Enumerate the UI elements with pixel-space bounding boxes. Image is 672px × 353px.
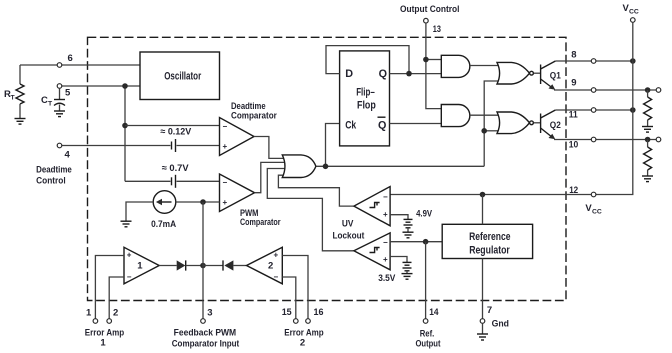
junction (NOR2 feedback) <box>481 128 487 134</box>
svg-text:Reference: Reference <box>469 231 510 243</box>
wire pin11 collector Q2 <box>555 109 632 111</box>
wire pin4 deadtime control line <box>62 145 171 147</box>
wire feedback vertical pin3 <box>202 202 204 319</box>
svg-text:10: 10 <box>569 140 579 151</box>
svg-text:−: − <box>274 273 279 282</box>
battery 3.5V <box>403 262 412 270</box>
wire AND1 to NOR1 <box>470 65 500 67</box>
svg-text:≈ 0.7V: ≈ 0.7V <box>162 163 190 174</box>
wire pin6 line <box>20 64 140 66</box>
svg-text:Flip–: Flip– <box>356 87 375 99</box>
junction (feedback node) <box>200 263 206 269</box>
wire Ck connection <box>326 124 340 167</box>
svg-text:1: 1 <box>137 261 143 272</box>
junction (feedback/PWM plus) <box>200 199 206 205</box>
wire pin 14 <box>425 242 427 319</box>
svg-text:+: + <box>223 198 228 207</box>
wire deadtime minus input <box>125 125 220 127</box>
wire Q output <box>390 73 442 75</box>
dashed IC boundary box <box>88 37 567 300</box>
node pin 7 Gnd <box>480 319 485 324</box>
svg-text:13: 13 <box>433 24 441 35</box>
svg-text:9: 9 <box>571 78 576 89</box>
svg-text:15: 15 <box>282 307 293 318</box>
wire Qbar output <box>390 123 442 125</box>
wire Vcc rail <box>596 22 633 194</box>
junction (pin10/R2) <box>645 137 651 143</box>
junction (OR out / Ck) <box>323 164 329 170</box>
junction (rail/ref reg) <box>480 192 486 198</box>
node pin 4 terminal <box>57 143 62 148</box>
svg-text:8: 8 <box>571 50 576 61</box>
wire pin13 to AND gates <box>426 23 441 109</box>
svg-text:≈ 0.12V: ≈ 0.12V <box>160 127 192 138</box>
svg-text:Ck: Ck <box>345 119 357 131</box>
resistor R1 (pin9 pulldown) <box>644 90 652 126</box>
svg-text:Q2: Q2 <box>550 120 561 131</box>
wire UV1 plus input <box>390 215 408 219</box>
svg-text:+: + <box>223 142 228 151</box>
node pin9 external terminal <box>656 88 661 93</box>
node pin 1 <box>93 319 98 324</box>
ground (R2) <box>642 176 653 182</box>
nor-gate N1 <box>497 62 530 84</box>
svg-text:4: 4 <box>65 150 71 161</box>
svg-text:T: T <box>48 101 53 108</box>
svg-text:4.9V: 4.9V <box>416 209 433 220</box>
svg-text:2: 2 <box>113 307 118 318</box>
diode D1 <box>159 265 177 267</box>
svg-text:5: 5 <box>65 87 71 98</box>
svg-text:Flop: Flop <box>357 99 376 111</box>
ground (RT) <box>15 119 26 125</box>
transistor Q2 <box>534 110 561 139</box>
flip-flop U-FF <box>340 51 390 146</box>
node pin 5 terminal <box>57 84 62 89</box>
junction (pin9/R1) <box>645 87 651 93</box>
junction (pin5/ramp) <box>122 83 128 89</box>
wire EA1 plus to pin1 <box>95 256 124 319</box>
battery 0.12V offset <box>172 139 176 152</box>
current source 0.7mA <box>151 191 176 230</box>
wire current source to PWM plus input <box>176 201 220 203</box>
svg-text:Oscillator: Oscillator <box>164 71 202 83</box>
svg-text:Deadtime: Deadtime <box>36 165 72 176</box>
ground (pin7) <box>477 334 488 340</box>
svg-text:Control: Control <box>36 176 66 187</box>
svg-text:−: − <box>223 122 228 131</box>
wire AND2 to NOR2 <box>470 114 500 116</box>
wire UV1 output to OR <box>278 175 354 206</box>
svg-text:Regulator: Regulator <box>469 244 510 256</box>
svg-text:+: + <box>274 251 279 260</box>
junction (ramp/deadtime minus) <box>122 123 128 129</box>
wire deadtime comp output <box>254 137 289 159</box>
svg-text:2: 2 <box>300 338 305 349</box>
svg-text:−: − <box>383 192 388 201</box>
node pin 2 <box>107 319 112 324</box>
wire ref reg top to rail <box>482 195 484 225</box>
ground (3.5V) <box>402 274 413 280</box>
and-gate A2 <box>441 105 470 127</box>
node pin 3 <box>201 319 206 324</box>
svg-text:1: 1 <box>86 307 92 318</box>
node pin 6 terminal <box>57 63 62 68</box>
ground (0.7mA source) <box>121 221 132 227</box>
svg-text:Output Control: Output Control <box>400 4 460 15</box>
oscillator U-OSC <box>140 52 220 100</box>
node pin 14 Ref Output <box>423 319 428 324</box>
svg-text:CC: CC <box>592 209 602 216</box>
svg-text:14: 14 <box>429 307 439 318</box>
comparator PWM <box>220 174 255 212</box>
wire pin10 emitter Q2 <box>554 139 656 141</box>
svg-text:1: 1 <box>100 338 106 349</box>
comparator UV lockout 1 <box>354 187 390 226</box>
wire UV2 plus input <box>390 257 407 263</box>
wire ref reg bottom to pin 7 <box>482 259 484 319</box>
error amp 1 <box>124 247 159 283</box>
wire EA2 plus to pin16 <box>282 256 308 319</box>
diode D2 <box>203 265 223 267</box>
node pin 16 <box>306 319 311 324</box>
nor-gate N2 <box>497 112 530 134</box>
junction (pin8/Vcc rail) <box>630 58 636 64</box>
wire EA1 minus to pin2 <box>109 277 124 319</box>
error amp 2 <box>247 247 283 283</box>
svg-text:−: − <box>223 178 228 187</box>
wire UV2 output to OR <box>267 169 354 251</box>
junction (pin11/Vcc rail) <box>630 107 636 113</box>
svg-text:7: 7 <box>487 305 492 316</box>
svg-text:Output: Output <box>416 339 442 350</box>
battery 0.7V offset <box>172 175 176 188</box>
svg-text:6: 6 <box>68 53 73 64</box>
ground (R1) <box>642 127 653 133</box>
junction (pin13/AND1) <box>423 57 429 63</box>
junction (UV2/pin14) <box>423 239 429 245</box>
node pin10 external terminal <box>656 137 661 142</box>
svg-text:11: 11 <box>569 110 579 121</box>
comparator UV lockout 2 <box>354 233 390 270</box>
svg-text:Gnd: Gnd <box>492 318 510 329</box>
svg-text:C: C <box>41 95 48 106</box>
svg-text:−: − <box>383 238 388 247</box>
svg-text:Comparator: Comparator <box>231 110 277 121</box>
capacitor CT <box>41 88 65 110</box>
ground (4.9V) <box>403 232 414 238</box>
svg-text:Feedback PWM: Feedback PWM <box>174 328 237 339</box>
svg-text:+: + <box>383 255 388 264</box>
wire OR output / clock line <box>317 165 485 167</box>
svg-text:Q: Q <box>378 119 386 131</box>
wire pin9 emitter Q1 <box>554 89 656 91</box>
wire D feedback loop <box>326 46 409 74</box>
wire CT ramp vertical <box>124 86 126 181</box>
wire pin8 collector Q1 <box>555 60 632 62</box>
wire PWM minus input <box>125 180 171 182</box>
wire UV2 minus to ref reg <box>390 241 442 243</box>
and-gate A1 <box>441 55 470 77</box>
or-gate 4-input <box>282 155 316 178</box>
svg-text:D: D <box>345 68 353 80</box>
svg-text:+: + <box>383 210 388 219</box>
wire OR output up to NOR gates <box>484 81 500 166</box>
wire pin7 to ground <box>482 323 484 333</box>
svg-text:3: 3 <box>207 307 212 318</box>
wire pin12 / UV minus rail <box>390 194 591 196</box>
comparator deadtime <box>220 118 255 156</box>
transistor Q1 <box>534 61 562 90</box>
node pin 12 Vcc terminal <box>591 192 596 197</box>
svg-text:3.5V: 3.5V <box>378 273 396 284</box>
svg-text:UV: UV <box>342 219 354 230</box>
svg-text:Q1: Q1 <box>550 70 562 81</box>
resistor RT <box>4 65 24 118</box>
wire PWM comp output <box>255 162 290 192</box>
junction (D loop / Q) <box>406 71 412 77</box>
svg-text:CC: CC <box>629 9 639 16</box>
svg-text:Q: Q <box>379 68 387 80</box>
resistor R2 (pin10 pulldown) <box>644 140 652 176</box>
svg-text:−: − <box>127 273 132 282</box>
node pin 15 <box>294 319 299 324</box>
svg-text:0.7mA: 0.7mA <box>151 219 176 230</box>
svg-text:16: 16 <box>314 307 324 318</box>
wire current source left to ground <box>126 202 153 221</box>
svg-text:2: 2 <box>268 261 273 272</box>
svg-text:+: + <box>127 251 132 260</box>
battery 4.9V <box>404 219 413 227</box>
wire pin5 line <box>62 85 140 87</box>
svg-text:Comparator: Comparator <box>240 217 281 228</box>
regulator U-REF <box>442 224 532 258</box>
svg-text:Comparator Input: Comparator Input <box>172 338 240 349</box>
ground (CT) <box>54 111 65 117</box>
svg-text:Lockout: Lockout <box>333 230 366 241</box>
wire EA2 minus to pin15 <box>282 277 296 319</box>
